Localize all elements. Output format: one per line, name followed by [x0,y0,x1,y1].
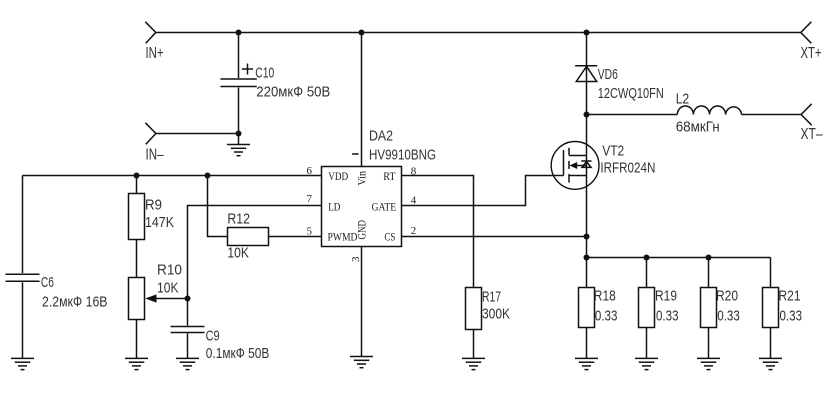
svg-text:R21: R21 [779,289,801,305]
svg-text:R12: R12 [227,212,250,228]
svg-text:L2: L2 [676,92,690,108]
resistor R12 10K [227,212,268,262]
capacitor C6 2.2мкФ 16В [6,274,108,310]
IC DA2 HV9910BNG body [322,129,437,247]
ground (C6) [11,358,34,369]
wire C6 lead [22,176,24,274]
svg-text:IN+: IN+ [146,45,164,62]
wire C9 to ground [187,334,189,359]
wire R10 to ground [136,320,138,359]
wiper arrow of R10 [145,294,187,302]
wire C10 lower lead [238,88,240,145]
svg-text:0.33: 0.33 [780,309,803,325]
svg-text:VD6: VD6 [598,67,618,83]
svg-text:GND: GND [355,220,369,240]
node junction VD6 / top rail [584,30,590,36]
resistor R21 0.33 [763,288,803,328]
wire R20 upper lead [708,258,710,288]
svg-text:5: 5 [307,226,313,238]
wire R19 to ground [646,328,648,359]
node junction C10 / top rail [236,30,242,36]
svg-text:C9: C9 [206,329,220,345]
svg-text:LD: LD [328,200,340,214]
svg-text:GATE: GATE [372,200,397,214]
terminal XT- [801,104,823,143]
node junction R12 / VDD rail [205,173,211,179]
svg-text:RT: RT [383,169,396,183]
node junction R9 / VDD rail [134,173,140,179]
wire GATE (pin 4) to VT2 gate [402,176,564,206]
wire sense rail to R19 R20 R21 [587,257,771,259]
node junction IN- / C10 [236,131,242,137]
minus mark at Vin [352,153,359,155]
ground (R18) [575,358,598,369]
svg-text:10K: 10K [157,281,179,297]
svg-text:147K: 147K [145,215,174,231]
wire R19 upper lead [646,258,648,288]
svg-text:VDD: VDD [328,169,348,183]
wire R9 upper lead [136,176,138,194]
svg-text:7: 7 [307,193,313,205]
wire R18 to ground [586,328,588,359]
wire R12 from VDD rail [208,176,228,237]
svg-text:Vin: Vin [355,171,369,186]
svg-text:300K: 300K [482,307,510,323]
resistor R9 147K [129,194,175,240]
svg-text:0.1мкФ 50В: 0.1мкФ 50В [206,346,270,362]
svg-text:0.33: 0.33 [717,309,740,325]
wire node to L2 [587,114,678,116]
svg-text:C10: C10 [255,66,274,82]
transistor VT2 IRFR024N (MOSFET) [551,142,655,190]
wire GND lead (pin 3) [361,247,363,357]
ground (DA2) [350,357,373,368]
ground (R21) [759,358,782,369]
node junction wiper / LD / C9 [185,296,191,302]
svg-text:IRFR024N: IRFR024N [600,161,655,177]
node junction R20 / sense rail [706,255,712,261]
svg-text:HV9910BNG: HV9910BNG [369,148,436,164]
ground (R20) [697,358,720,369]
svg-text:R9: R9 [145,198,162,214]
potentiometer R10 10K [129,263,183,320]
diode VD6 12CWQ10FN [575,66,664,102]
svg-text:XT–: XT– [801,126,823,143]
svg-text:R20: R20 [716,289,738,305]
svg-text:12CWQ10FN: 12CWQ10FN [598,86,664,102]
svg-text:C6: C6 [41,275,54,291]
resistor R17 300K [466,288,511,330]
ground (input) [227,145,250,156]
wire R17 to ground [473,330,475,359]
terminal IN- [145,123,163,164]
svg-text:68мкГн: 68мкГн [676,120,720,136]
svg-text:VT2: VT2 [602,143,624,159]
wire R21 upper lead [770,258,772,288]
wire C10 upper lead [238,33,240,79]
svg-text:XT+: XT+ [801,45,822,62]
wire IN- to C10 [156,133,239,135]
resistor R20 0.33 [701,288,740,328]
svg-text:220мкФ 50В: 220мкФ 50В [256,85,330,101]
svg-text:DA2: DA2 [369,129,393,145]
node junction Vin / top rail [359,30,365,36]
svg-text:2.2мкФ 16В: 2.2мкФ 16В [42,294,108,310]
wire R12 to PWMD (pin 5) [269,236,322,238]
ground (R17) [462,358,485,369]
wire Vin lead [361,33,363,167]
resistor R19 0.33 [639,288,679,328]
node junction CS / VT2 source [584,234,590,240]
capacitor C10 (polarized, 220мкФ 50В) [220,64,330,101]
svg-text:0.33: 0.33 [595,309,618,325]
terminal IN+ [145,22,163,62]
svg-text:3: 3 [350,256,362,262]
wire R9 to R10 [136,240,138,278]
inductor L2 68мкГн [676,92,742,136]
wire C6 to ground [22,282,24,358]
wire VD6 / VT2 drain-source vertical [586,33,588,288]
resistor R18 0.33 [579,288,618,328]
wire top rail IN+ to XT+ [156,32,801,34]
svg-text:CS: CS [384,230,395,244]
node junction sense rail [584,255,590,261]
svg-text:IN–: IN– [146,146,164,163]
svg-text:10K: 10K [227,246,249,262]
ground (R19) [635,358,658,369]
svg-text:R19: R19 [655,289,677,305]
wire R21 to ground [770,328,772,359]
svg-text:PWMD: PWMD [328,230,358,244]
terminal XT+ [801,22,822,62]
wire L2 to XT- [742,114,802,116]
node junction VD6 / L2 / VT2 drain [584,112,590,118]
wire VDD rail (pin 6) [23,175,322,177]
svg-text:R10: R10 [157,263,182,279]
wire RT (pin 8) to R17 [402,176,474,288]
svg-text:R17: R17 [482,290,501,306]
svg-text:2: 2 [411,225,417,237]
wire R20 to ground [708,328,710,359]
wire LD (pin 7) [188,206,322,326]
node junction R19 / sense rail [644,255,650,261]
wire CS (pin 2) [402,236,587,238]
svg-text:R18: R18 [594,289,616,305]
ground (R10) [125,358,148,369]
ground (C9) [176,358,199,369]
capacitor C9 0.1мкФ 50В [171,327,270,362]
svg-text:0.33: 0.33 [656,309,679,325]
